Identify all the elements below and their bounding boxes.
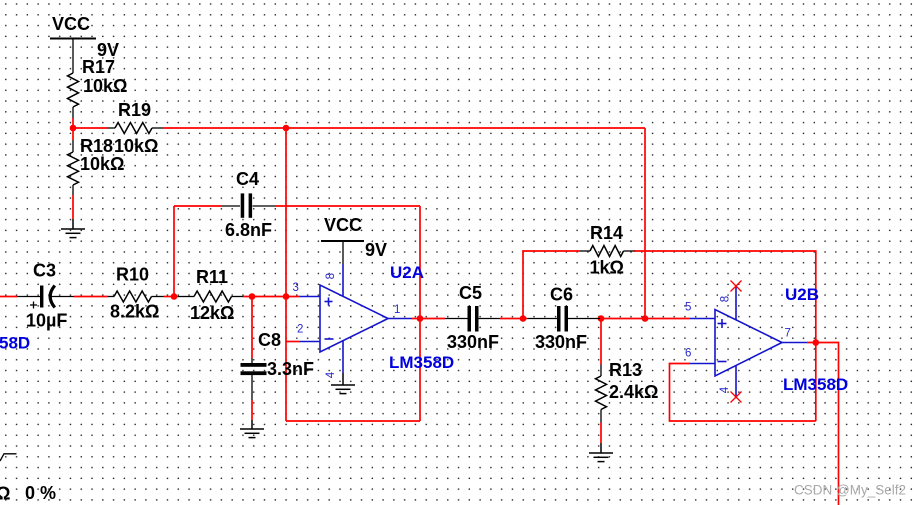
svg-text:1: 1 bbox=[394, 304, 400, 316]
wire: R10 to R11 through node bbox=[164, 296, 179, 298]
op-amp U2B pin 5 stub bbox=[690, 318, 715, 320]
wire: C4 left lead wire bbox=[174, 205, 221, 207]
svg-text:R13: R13 bbox=[609, 360, 642, 380]
wire: node up to R14 left bbox=[523, 251, 580, 319]
svg-text:0 %: 0 % bbox=[25, 483, 56, 503]
resistor R13 bbox=[596, 365, 607, 423]
svg-text:10kΩ: 10kΩ bbox=[80, 154, 124, 174]
op-amp U2B pin 4 stub bbox=[735, 366, 737, 398]
svg-text:4: 4 bbox=[719, 386, 731, 393]
svg-text:C5: C5 bbox=[459, 283, 482, 303]
op-amp U2A output stub pin 1 bbox=[388, 318, 412, 320]
svg-text:330nF: 330nF bbox=[535, 332, 587, 352]
op-amp U2B triangle bbox=[715, 310, 782, 377]
partial resistor at left edge (cut off) bbox=[0, 454, 17, 461]
wire: R14 right to U2B right edge bbox=[634, 251, 816, 421]
ground (U2A pin4) bbox=[331, 373, 355, 394]
wire: pin2 stub to x286 vertical bbox=[286, 341, 300, 343]
wire: U2A box right edge bbox=[419, 206, 421, 421]
svg-text:C4: C4 bbox=[236, 169, 259, 189]
svg-text:2: 2 bbox=[297, 324, 303, 336]
svg-text:9V: 9V bbox=[365, 240, 387, 260]
svg-text:10µF: 10µF bbox=[26, 311, 67, 331]
svg-text:10kΩ: 10kΩ bbox=[114, 136, 158, 156]
junction node R17/R18/R19 bbox=[70, 125, 77, 132]
wire: U2A box bottom edge bbox=[286, 420, 420, 422]
wire: U2A output to C5 bbox=[412, 318, 445, 320]
wire: C8 bottom to ground bbox=[251, 400, 253, 420]
wire: C4 right to U2A box top edge bbox=[276, 205, 420, 207]
svg-text:CSDN @My_Self2: CSDN @My_Self2 bbox=[794, 483, 906, 498]
svg-text:R17: R17 bbox=[82, 57, 115, 77]
op-amp U2B minus sign bbox=[718, 361, 727, 363]
svg-text:4: 4 bbox=[325, 371, 337, 378]
svg-text:58D: 58D bbox=[0, 334, 30, 353]
junction node R13 tap bbox=[598, 315, 605, 322]
no-connect X on U2B pin 8 bbox=[731, 281, 742, 292]
junction node R10/R11/C4 bbox=[171, 293, 178, 300]
capacitor C3 (polarized) bbox=[17, 286, 74, 309]
ground (R13) bbox=[589, 443, 613, 462]
VCC rail symbol (left) bbox=[50, 39, 96, 74]
capacitor C8 bbox=[241, 358, 267, 400]
wire: C6 right to pin5 bbox=[600, 318, 690, 320]
no-connect X on U2B pin 4 bbox=[731, 392, 742, 403]
svg-text:R18: R18 bbox=[80, 136, 113, 156]
svg-text:C8: C8 bbox=[258, 330, 281, 350]
resistor R11 bbox=[178, 291, 243, 302]
op-amp U2B pin 8 stub bbox=[735, 287, 737, 320]
svg-text:8: 8 bbox=[325, 273, 337, 279]
op-amp U2B pin 6 stub bbox=[690, 363, 715, 365]
op-amp U2A pin 4 stub bbox=[342, 340, 344, 373]
wire: input from left edge bbox=[0, 296, 17, 298]
wire: R13 top drop bbox=[600, 319, 602, 365]
svg-text:R10: R10 bbox=[116, 265, 149, 285]
junction node top bus / x286 bbox=[283, 125, 290, 132]
svg-text:C6: C6 bbox=[550, 285, 573, 305]
svg-text:7: 7 bbox=[785, 328, 791, 340]
svg-text:8.2kΩ: 8.2kΩ bbox=[110, 302, 159, 322]
svg-text:VCC: VCC bbox=[52, 14, 90, 34]
svg-text:6.8nF: 6.8nF bbox=[225, 220, 272, 240]
svg-text:12kΩ: 12kΩ bbox=[190, 303, 234, 323]
svg-text:330nF: 330nF bbox=[447, 332, 499, 352]
wire: R13 bottom to ground bbox=[600, 423, 602, 444]
op-amp U2A minus sign bbox=[325, 338, 334, 340]
capacitor C6 bbox=[527, 306, 600, 332]
op-amp U2B plus sign bbox=[718, 319, 727, 328]
svg-text:U2A: U2A bbox=[390, 263, 424, 282]
svg-text:VCC: VCC bbox=[324, 215, 362, 235]
resistor R17 bbox=[68, 73, 79, 118]
wire: R17 bottom / R18 top at node bbox=[72, 118, 74, 140]
VCC rail symbol (U2A) bbox=[321, 241, 364, 264]
svg-text:5: 5 bbox=[685, 302, 691, 314]
svg-text:R11: R11 bbox=[196, 267, 228, 287]
wire: U2B feedback bottom to pin6 bbox=[670, 364, 816, 422]
svg-text:3.3nF: 3.3nF bbox=[267, 359, 314, 379]
svg-text:1kΩ: 1kΩ bbox=[590, 258, 624, 278]
wire: node to R19 left bbox=[73, 127, 107, 129]
capacitor C5 bbox=[445, 306, 500, 332]
junction node C5/C6/R14 bbox=[520, 315, 527, 322]
wire: R11 right to pin3 bbox=[243, 296, 300, 298]
wire: vertical x=174 C4 to R10/R11 node bbox=[173, 206, 175, 297]
wire: C3 to R10 bbox=[74, 296, 108, 298]
svg-text:3: 3 bbox=[293, 282, 299, 294]
ground (R18) bbox=[61, 219, 85, 238]
svg-text:2.4kΩ: 2.4kΩ bbox=[609, 382, 658, 402]
wire: R18 bottom to ground bbox=[72, 195, 74, 219]
op-amp U2A pin 8 stub bbox=[342, 264, 344, 297]
svg-text:8: 8 bbox=[720, 296, 732, 302]
svg-text:C3: C3 bbox=[33, 261, 56, 281]
resistor R10 bbox=[108, 291, 164, 302]
svg-text:R19: R19 bbox=[118, 100, 151, 120]
wire: top bus R19 right to corner bbox=[163, 127, 645, 129]
svg-text:10kΩ: 10kΩ bbox=[83, 76, 127, 96]
wire: C8 top drop bbox=[251, 297, 253, 359]
junction node U2B output bbox=[813, 339, 820, 346]
junction node pin3 / x286 bbox=[283, 293, 290, 300]
op-amp U2A plus sign bbox=[325, 298, 333, 306]
svg-text:6: 6 bbox=[685, 348, 691, 360]
op-amp U2A pin 3 stub bbox=[300, 296, 320, 298]
op-amp U2A pin 2 stub bbox=[300, 341, 320, 343]
op-amp U2A triangle bbox=[320, 285, 388, 352]
svg-text:LM358D: LM358D bbox=[783, 375, 848, 394]
op-amp U2B output stub pin 7 bbox=[782, 342, 807, 344]
ground (C8) bbox=[240, 420, 264, 438]
svg-text:LM358D: LM358D bbox=[389, 353, 454, 372]
svg-text:U2B: U2B bbox=[785, 285, 819, 304]
resistor R19 bbox=[107, 123, 163, 134]
svg-text:R14: R14 bbox=[590, 223, 623, 243]
capacitor C4 bbox=[221, 193, 276, 217]
resistor R18 bbox=[68, 140, 79, 195]
wire: C5 right to C6 left node bbox=[500, 318, 527, 320]
wire: U2B output to out drop bbox=[807, 343, 839, 505]
junction node U2A output bbox=[417, 315, 424, 322]
wire: vertical drop x=645 to C6/pin5 node bbox=[644, 128, 646, 319]
junction node top-bus drop / pin5 bbox=[642, 315, 649, 322]
resistor R14 bbox=[580, 246, 635, 257]
wire: vertical x=286 top bus down to feedback bottom bbox=[285, 128, 287, 421]
svg-text:Ω: Ω bbox=[0, 484, 10, 504]
junction node C8 tap bbox=[249, 293, 256, 300]
